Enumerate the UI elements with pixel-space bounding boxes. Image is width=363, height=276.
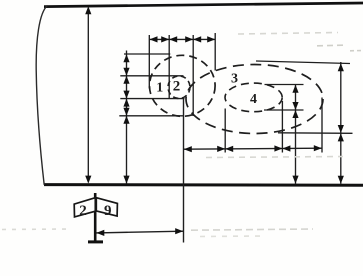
bottom offset dimension line bbox=[96, 231, 184, 233]
arrow down at bottom surface bbox=[85, 176, 91, 184]
flag pole bbox=[94, 193, 97, 242]
extension line L3 bbox=[120, 98, 184, 100]
left break curve bbox=[36, 5, 47, 184]
overall-height dimension line bbox=[87, 10, 89, 180]
arrow up at top surface bbox=[85, 6, 91, 14]
ellipse4 top tangent line bbox=[265, 84, 304, 86]
tick ellipse3 right bbox=[321, 98, 323, 153]
middle dimension row line bbox=[184, 148, 323, 149]
arrows ellipse3 dim bbox=[338, 63, 344, 71]
flag right panel bbox=[96, 198, 117, 216]
tick ellipse4 right bbox=[281, 101, 283, 153]
extension line L1 bbox=[124, 53, 170, 55]
dashed curve 4 bbox=[225, 83, 282, 112]
dashed curve 3 bbox=[186, 65, 323, 134]
ellipse3 bottom tangent line bbox=[278, 132, 353, 135]
top surface line bbox=[44, 3, 363, 7]
svg-text:4: 4 bbox=[250, 92, 257, 107]
tick V3 (curve2 right) bbox=[192, 35, 194, 116]
ellipse3 top tangent line bbox=[256, 61, 350, 64]
tick ellipse4 left bbox=[224, 109, 226, 153]
svg-text:9: 9 bbox=[104, 203, 112, 219]
arrow up at L1 bbox=[123, 54, 129, 62]
ellipse4 height dimension line bbox=[295, 85, 297, 184]
ghost scan noise rows bbox=[2, 33, 362, 237]
centre extension vertical bbox=[183, 99, 185, 243]
arrow pair at L3 bbox=[123, 91, 129, 99]
top row arrows bbox=[150, 36, 158, 42]
dashed curve 2 bbox=[168, 76, 190, 99]
tick V4 (curve1 right) bbox=[214, 33, 216, 71]
top dimension row line bbox=[149, 38, 215, 40]
svg-text:2: 2 bbox=[173, 79, 181, 95]
arrow down at bottom surface from stack bbox=[123, 176, 129, 184]
flag anchor bar bbox=[88, 240, 103, 243]
ellipse4 bottom tangent line bbox=[264, 109, 304, 111]
left stacked dimension line bbox=[126, 51, 128, 184]
ellipse3 height dimension line bbox=[340, 62, 342, 184]
arrow pair at L2 bbox=[123, 68, 129, 76]
extension line L4 bbox=[119, 115, 183, 117]
dashed curve 1 bbox=[150, 55, 216, 116]
svg-text:3: 3 bbox=[231, 72, 238, 87]
svg-text:2: 2 bbox=[79, 203, 87, 219]
bottom surface line bbox=[44, 183, 363, 187]
tick V1 (curve1 left) bbox=[148, 35, 150, 89]
tick V2 (curve2 left) bbox=[168, 35, 170, 99]
arrows ellipse4 dim bbox=[292, 85, 298, 93]
extension line L2 bbox=[120, 75, 183, 77]
flag left panel bbox=[74, 198, 95, 217]
middle row arrows bbox=[184, 146, 192, 152]
arrow pair at L4 bbox=[123, 108, 129, 116]
svg-text:1: 1 bbox=[156, 81, 163, 96]
